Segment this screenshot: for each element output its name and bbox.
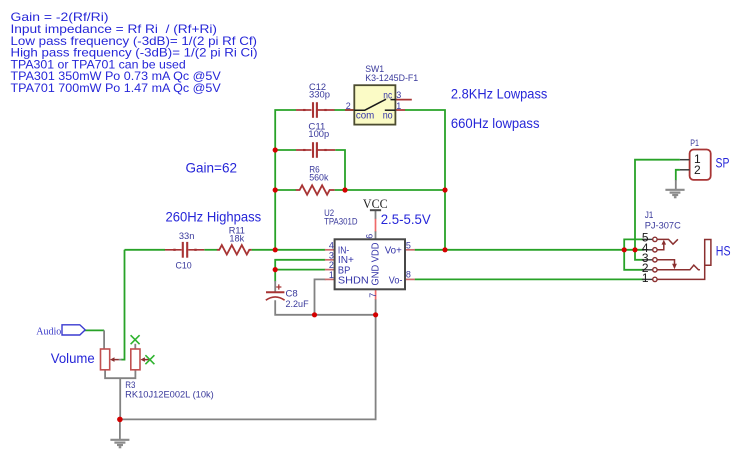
svg-text:P1: P1 [690, 138, 699, 148]
svg-text:100p: 100p [308, 129, 329, 139]
capacitor C12 330p [296, 102, 335, 118]
connector P1 pin 1 lead [680, 159, 690, 161]
svg-text:Volume: Volume [51, 350, 95, 366]
pin stub BP [325, 269, 335, 271]
wire R6 right to right rail [335, 189, 445, 191]
svg-text:2.2uF: 2.2uF [286, 299, 309, 309]
switch SW1 com contact and lever [354, 99, 386, 110]
svg-text:2: 2 [329, 260, 334, 270]
wire VDD red segment [375, 219, 377, 232]
svg-text:3: 3 [396, 90, 401, 100]
svg-text:GND VDD: GND VDD [370, 243, 381, 286]
pin stub IN- [325, 249, 335, 251]
pin stub Vo- [405, 278, 415, 280]
potentiometer R3 element A (Volume left) [101, 349, 110, 370]
net flag Audio [62, 325, 85, 335]
junction node P1 rail at pin4 line [632, 247, 637, 252]
svg-text:5: 5 [406, 241, 411, 251]
junction node right rail at Vo+ [442, 247, 447, 252]
potentiometer R3 element B wiper arrow [143, 359, 150, 361]
svg-text:1: 1 [642, 271, 649, 285]
wire BP net [275, 269, 325, 271]
jack J1 sleeve (pin 1) [657, 240, 711, 280]
svg-text:Vo-: Vo- [389, 275, 403, 286]
note: design equations text block [11, 10, 258, 95]
svg-text:560k: 560k [309, 173, 329, 183]
wire Vo- net to J1 pin1 [415, 278, 645, 280]
wire GND pin7 red segment [375, 290, 377, 300]
wire feedback rail [275, 110, 296, 250]
wire SHDN net [315, 279, 326, 314]
svg-text:SP: SP [716, 154, 730, 170]
wire pot bottom tie [105, 370, 135, 379]
svg-text:8: 8 [406, 270, 411, 280]
capacitor C10 33n [165, 242, 204, 258]
connector J1 pin circles [653, 237, 657, 281]
svg-text:6: 6 [364, 234, 374, 239]
capacitor C11 100p [296, 142, 335, 158]
junction node right rail at R6 line [442, 187, 447, 192]
svg-text:J1: J1 [645, 210, 654, 220]
wire VCC to pin6 lower gray [375, 231, 377, 239]
junction node IN- [273, 247, 278, 252]
svg-text:33n: 33n [179, 231, 195, 241]
wire audio flag to pot [85, 329, 104, 331]
svg-text:C8: C8 [286, 289, 298, 299]
svg-text:SHDN: SHDN [338, 275, 369, 286]
wire bottom ground rail [120, 315, 376, 420]
svg-text:no: no [383, 110, 393, 121]
wire pot right top stub [134, 344, 136, 350]
svg-text:18k: 18k [229, 234, 244, 244]
svg-text:Gain=62: Gain=62 [186, 159, 238, 175]
wire switch no pin to right rail [405, 110, 445, 250]
svg-text:TPA301D: TPA301D [324, 216, 358, 226]
svg-text:HS: HS [716, 243, 731, 259]
connector P1 SP body [690, 150, 711, 180]
wire C8 top stub (gray) [274, 281, 276, 292]
pin stub switch com [345, 109, 354, 111]
switch SW1 K3-1245D-F1 body [354, 85, 395, 124]
capacitor C8 2.2uF polarized [266, 284, 285, 300]
junction node pin7/ground rail [373, 312, 378, 317]
svg-text:2.5-5.5V: 2.5-5.5V [381, 211, 432, 227]
pin stub SHDN [325, 278, 335, 280]
ground symbol at P1 [665, 190, 684, 197]
wire C11 right corner down to R6 node [335, 150, 345, 190]
wire BP node down to C8 [274, 270, 276, 282]
wire J1 pin5-pin2 tie rail [624, 239, 644, 269]
switch SW1 no contact [385, 109, 396, 111]
pin stub switch nc [395, 99, 411, 101]
pin stub Vo+ [405, 249, 415, 251]
svg-text:Vo+: Vo+ [385, 245, 402, 256]
svg-text:660Hz lowpass: 660Hz lowpass [451, 115, 540, 131]
resistor R6 560k [296, 185, 335, 194]
svg-text:RK10J12E002L (10k): RK10J12E002L (10k) [125, 390, 214, 400]
jack J1 tip switch arrow (pin 4) [657, 244, 664, 249]
svg-text:nc: nc [383, 90, 392, 101]
wire C11 left lead net [275, 149, 296, 151]
wire P1 pin1 to J1 pin3 [635, 160, 680, 260]
wire R6 left lead net [275, 189, 296, 191]
svg-text:2: 2 [346, 101, 351, 111]
wire P1 pin2 gnd gray stub [675, 180, 677, 189]
op-amp U2 TPA301D body [335, 239, 405, 289]
no-connect X on R3 element B wiper [145, 355, 154, 364]
wire VCC stub [375, 210, 377, 219]
svg-text:330p: 330p [309, 89, 330, 99]
jack J1 tip contact (pin 5) [657, 239, 678, 244]
svg-text:1: 1 [396, 101, 401, 111]
junction node J1 rail A at pin4 line [622, 247, 627, 252]
junction node R6 tap [273, 187, 278, 192]
no-connect X on R3 element B top [131, 335, 140, 344]
wire IN+ net [275, 260, 325, 270]
ground symbol bottom-left [110, 440, 129, 447]
junction node bottom ground [117, 417, 123, 423]
svg-text:260Hz Highpass: 260Hz Highpass [166, 209, 262, 225]
wire pot tie down to ground rail [119, 378, 121, 419]
pin stub IN+ [325, 259, 335, 261]
wire ground stub bottom-left [119, 419, 121, 439]
wire audio drop to pot top (gray) [103, 330, 105, 349]
svg-text:3: 3 [329, 250, 334, 260]
svg-text:2: 2 [694, 163, 701, 177]
svg-text:1: 1 [329, 270, 334, 280]
switch SW1 nc contact [391, 99, 396, 101]
resistor R11 18k [217, 245, 252, 254]
pin marks on capacitor leads [173, 110, 326, 250]
wire C8 bottom rail [275, 300, 375, 315]
svg-text:Audio: Audio [36, 327, 61, 338]
junction node C11 tap [273, 147, 278, 152]
junction node SHDN/ground rail [312, 312, 317, 317]
connector P1 pin 2 lead [680, 169, 690, 171]
wire left rail down to volume wiper [121, 250, 125, 360]
potentiometer R3 element A wiper arrow [112, 359, 119, 361]
potentiometer R3 element B (right) [131, 349, 140, 370]
wire Vo+ net to J1 pin4 [415, 249, 645, 251]
svg-text:TPA701 700mW Po 1.47 mA Qc @5V: TPA701 700mW Po 1.47 mA Qc @5V [11, 81, 221, 95]
wire P1 pin2 to ground [676, 170, 680, 181]
svg-text:R3: R3 [125, 380, 135, 390]
svg-text:2.8KHz Lowpass: 2.8KHz Lowpass [451, 85, 547, 101]
wire pin7 to rail gray [375, 299, 377, 315]
jack J1 ring switch arrow (pin 3) [657, 260, 675, 265]
wire C12 right to switch com [334, 109, 354, 111]
svg-text:VCC: VCC [363, 197, 388, 211]
svg-text:K3-1245D-F1: K3-1245D-F1 [365, 73, 418, 83]
svg-text:7: 7 [368, 293, 378, 298]
svg-text:com: com [356, 110, 374, 121]
pin stub switch no [395, 109, 405, 111]
svg-text:PJ-307C: PJ-307C [645, 221, 681, 231]
junction node R6/C11 right [342, 187, 347, 192]
wire input line IN- net [125, 249, 166, 251]
connector J1 PJ-307C pin leads [642, 239, 653, 279]
svg-text:4: 4 [329, 241, 334, 251]
jack J1 ring contact (pin 2) [657, 265, 700, 270]
junction node BP/C8 [273, 267, 278, 272]
svg-text:C10: C10 [176, 261, 192, 271]
power VCC symbol [370, 209, 381, 211]
